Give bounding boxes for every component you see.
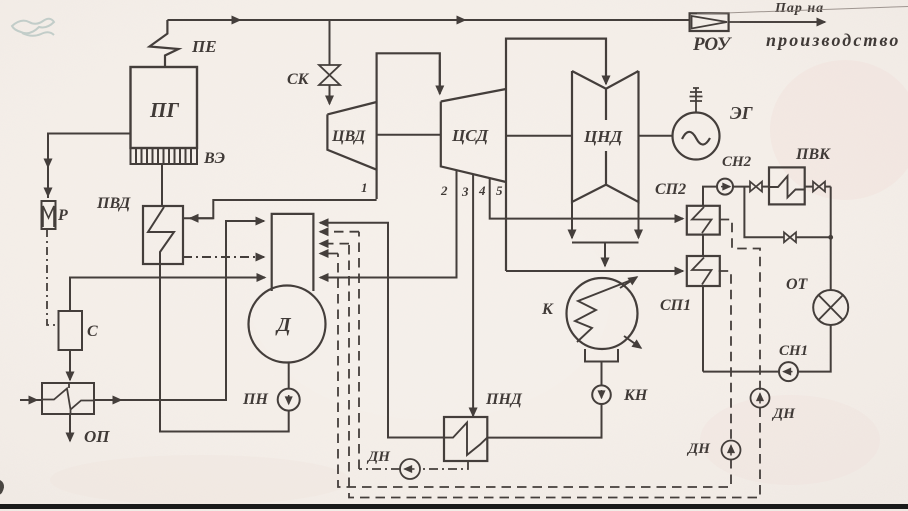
svg-text:Д: Д xyxy=(275,314,292,336)
extraction 5 line to SP1 xyxy=(506,270,683,272)
expander R xyxy=(42,201,56,229)
wire: main steam line from boiler to ROU xyxy=(167,19,689,21)
svg-text:ОТ: ОТ xyxy=(786,276,809,293)
PND zigzag coil xyxy=(445,423,488,456)
crossover pipe 2 (CSD to CND) xyxy=(506,39,606,271)
svg-text:1: 1 xyxy=(361,180,368,195)
svg-text:4: 4 xyxy=(478,183,486,198)
scan left-edge dark mark xyxy=(0,480,4,495)
svg-text:ПН: ПН xyxy=(242,391,268,408)
DN drain pump (SP1 drain) xyxy=(722,441,741,460)
scan artifact squiggle top-left xyxy=(12,19,54,36)
deaerator column xyxy=(272,214,314,291)
svg-text:ПНД: ПНД xyxy=(485,391,523,408)
LP cylinder CND double flow xyxy=(572,71,639,202)
svg-text:СП2: СП2 xyxy=(655,181,686,198)
extraction 2 line to deaerator xyxy=(320,171,457,278)
wire: OP discharge down xyxy=(69,414,71,441)
svg-text:ЦНД: ЦНД xyxy=(583,127,623,146)
condenser K xyxy=(567,277,642,362)
svg-text:РОУ: РОУ xyxy=(692,34,732,55)
condenser cooling water tubes xyxy=(575,279,634,342)
SN1 network pump xyxy=(779,362,798,381)
svg-text:ПВД: ПВД xyxy=(96,195,131,212)
PVK peak boiler box xyxy=(769,167,805,204)
wire: SP1 drain dashed to DN pump xyxy=(719,271,731,441)
wire: S steam to deaerator xyxy=(70,278,265,312)
junction: bypass joins supply line xyxy=(828,235,833,240)
OP internal symbol xyxy=(42,384,94,415)
SK stop valve stem xyxy=(329,20,331,65)
svg-text:СН1: СН1 xyxy=(779,343,808,359)
wire: OP outlet to deaerator riser xyxy=(94,221,264,400)
network heater SP1 box xyxy=(687,256,720,286)
wire: condensate to KN pump xyxy=(601,362,603,386)
wire: SN2 to valve xyxy=(733,186,750,188)
generator EG circle xyxy=(673,88,720,160)
SN2 network pump xyxy=(717,179,733,195)
IP cylinder CSD xyxy=(441,89,506,182)
OT heat consumer xyxy=(813,290,848,325)
scan bottom black edge xyxy=(0,504,908,509)
svg-text:КН: КН xyxy=(623,387,648,404)
wire: KN to PND xyxy=(487,404,601,438)
svg-text:5: 5 xyxy=(496,183,503,198)
shaft CSD-CND xyxy=(506,135,572,137)
svg-text:3: 3 xyxy=(461,184,469,199)
PVK bypass with valve xyxy=(744,187,830,238)
wire: PND drain dash-dot to DN pump xyxy=(420,461,468,469)
wire: deaerator to PN pump xyxy=(288,363,290,389)
svg-text:2: 2 xyxy=(440,183,448,198)
svg-text:ДН: ДН xyxy=(771,406,796,422)
SK valve body xyxy=(319,65,340,85)
ROU reducing unit xyxy=(690,13,825,31)
svg-text:Пар на: Пар на xyxy=(774,1,824,16)
network heater SP2 box xyxy=(687,206,720,235)
wire: network water riser xyxy=(703,187,717,372)
svg-text:ДН: ДН xyxy=(366,449,391,465)
OP blowdown cooler box xyxy=(42,383,94,414)
deaerator tank D xyxy=(249,286,326,363)
wire: boiler blowdown to R xyxy=(48,134,131,199)
wire: PVD drain dash-dot to deaerator xyxy=(183,256,264,258)
wire: PN to PVD feed line xyxy=(160,264,289,432)
PND heater box xyxy=(444,417,487,461)
svg-text:ЦВД: ЦВД xyxy=(331,128,366,145)
wire: OP raw water inlet xyxy=(20,399,37,401)
wire: SP2 drain dashed to DN pump xyxy=(720,220,760,391)
valve after PVK xyxy=(813,182,825,192)
wire: S down to OP xyxy=(69,350,71,380)
wire: CND exhausts to condenser xyxy=(571,202,573,238)
KN condensate pump xyxy=(592,385,611,404)
valve before PVK xyxy=(750,182,762,192)
svg-text:С: С xyxy=(87,323,98,340)
generator brush symbol xyxy=(690,88,703,113)
svg-text:Р: Р xyxy=(57,207,68,224)
wire: R to S dash-dot xyxy=(47,229,59,325)
superheater PE zigzag xyxy=(150,20,179,67)
svg-text:ПВК: ПВК xyxy=(795,146,831,163)
PVD heater box xyxy=(143,206,183,264)
HP cylinder CVD xyxy=(327,102,376,170)
shaft CVD-CSD xyxy=(377,134,441,136)
scan crease line top right xyxy=(697,7,908,15)
svg-text:К: К xyxy=(541,301,554,318)
shaft CND-generator xyxy=(639,135,673,137)
svg-text:ЦСД: ЦСД xyxy=(451,126,490,145)
condenser hotwell xyxy=(585,349,618,362)
DN drain pump (PND drain) xyxy=(400,459,420,479)
svg-text:ПГ: ПГ xyxy=(149,98,179,122)
svg-text:СК: СК xyxy=(287,71,310,88)
crossover pipe 1 (CVD to CSD) xyxy=(377,53,440,199)
wire: PVK outlet xyxy=(805,186,813,188)
steam generator PG xyxy=(131,67,198,148)
PVD zigzag coil xyxy=(148,207,174,264)
economizer VE hatched strip xyxy=(131,148,198,164)
wire: PND condensate to deaerator xyxy=(320,223,444,438)
svg-text:ДН: ДН xyxy=(686,441,711,457)
wire: feedwater VE down to PVD xyxy=(161,164,163,206)
PN feed pump xyxy=(278,389,300,411)
svg-text:СП1: СП1 xyxy=(660,297,691,314)
svg-text:ВЭ: ВЭ xyxy=(203,150,225,167)
wire: supply line down to OT xyxy=(830,187,832,290)
wire: extraction 1 to PVD xyxy=(183,200,377,218)
svg-text:производство: производство xyxy=(766,30,901,50)
S vessel xyxy=(59,311,83,350)
DN drain pump (SP2 drain) xyxy=(751,389,770,408)
extraction 3 line to PND xyxy=(472,174,474,416)
svg-text:ОП: ОП xyxy=(84,427,110,446)
wire: OT return line xyxy=(797,325,831,372)
svg-text:СН2: СН2 xyxy=(722,154,752,170)
extraction 4 line to SP2 xyxy=(490,178,683,219)
svg-text:ЭГ: ЭГ xyxy=(730,103,753,123)
svg-text:ПЕ: ПЕ xyxy=(191,37,217,56)
